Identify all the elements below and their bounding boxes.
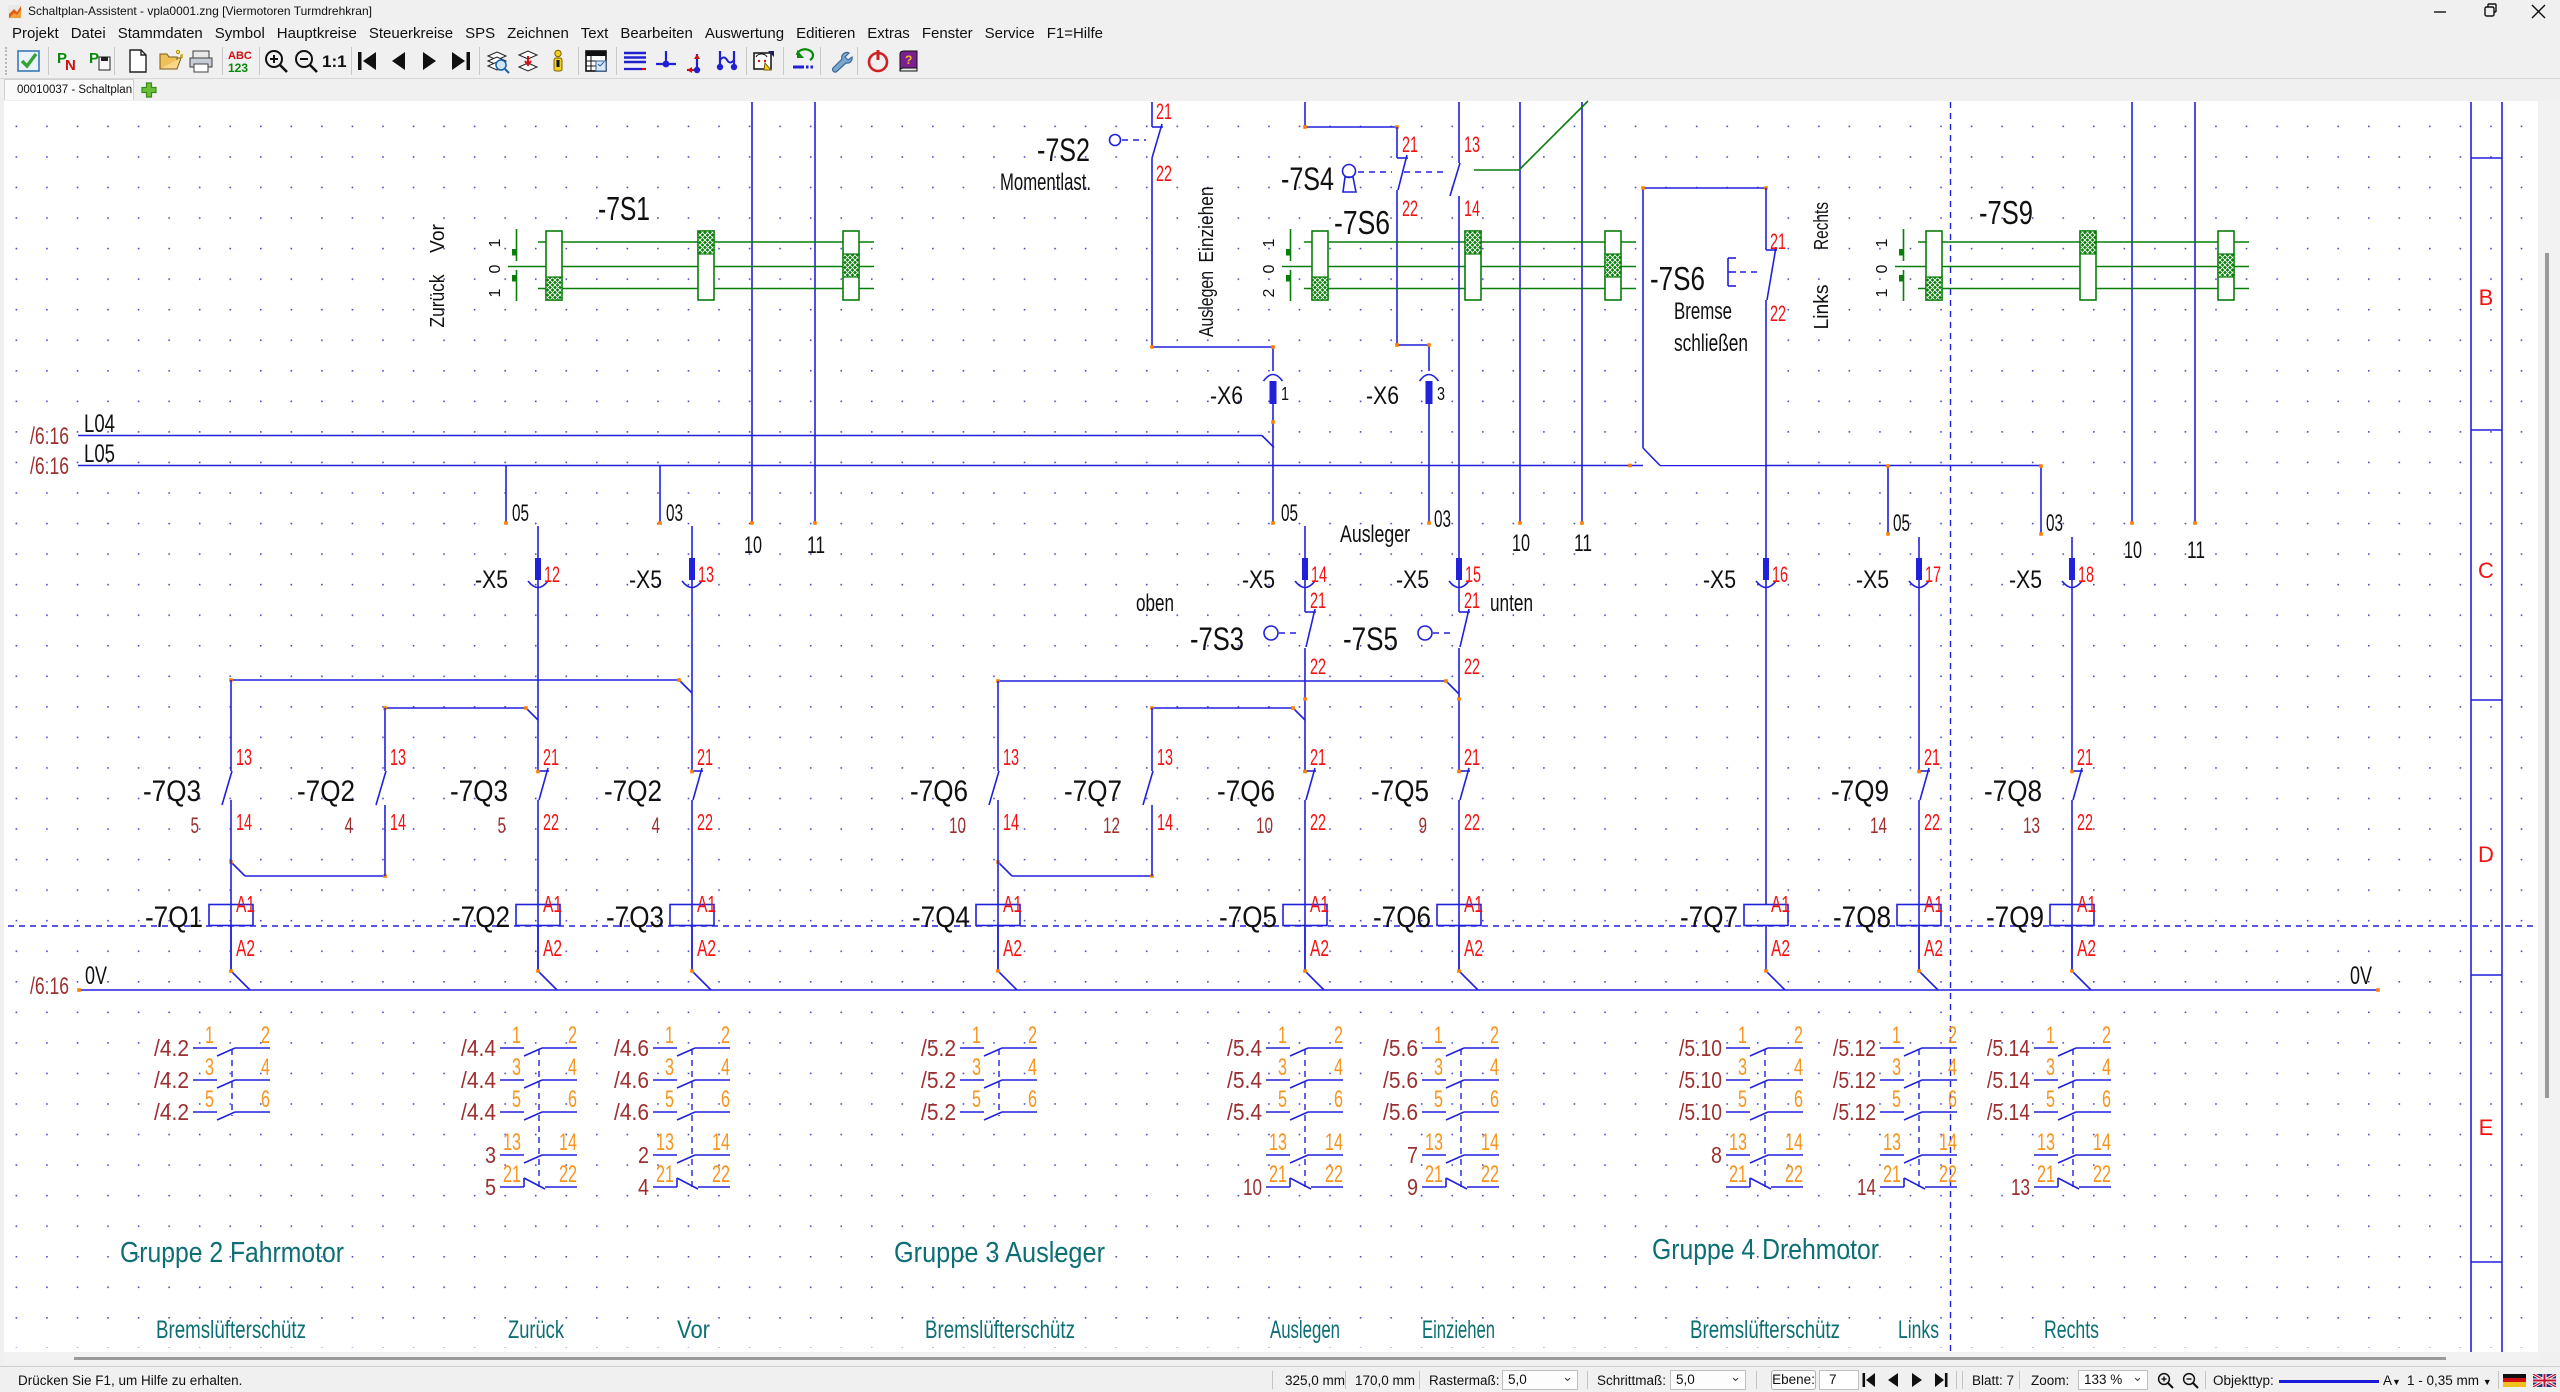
svg-text:A1: A1: [1310, 891, 1329, 917]
svg-text:22: 22: [1156, 161, 1172, 186]
svg-text:10: 10: [1256, 813, 1273, 838]
svg-text:5: 5: [191, 813, 200, 838]
switch -7S5 (NC limit): [1418, 626, 1432, 640]
svg-text:2: 2: [1794, 1022, 1803, 1049]
svg-text:oben: oben: [1136, 590, 1174, 617]
svg-text:/4.2: /4.2: [154, 1099, 189, 1125]
svg-text:/4.2: /4.2: [154, 1067, 189, 1093]
svg-text:2: 2: [568, 1022, 577, 1049]
master switch -7S9 plunger 2: [2080, 231, 2096, 300]
svg-text:Links: Links: [1898, 1316, 1939, 1344]
status raster field: [1429, 1373, 1500, 1388]
terminal -X5:18: [2069, 558, 2075, 580]
svg-text:-7Q7: -7Q7: [1064, 775, 1122, 808]
svg-text:-7Q7: -7Q7: [1680, 901, 1738, 934]
svg-text:Vor: Vor: [427, 224, 449, 253]
nav first: [1862, 1373, 1876, 1387]
toolbar icon print: [188, 48, 214, 74]
wire -7S4 pole2 vertical from top: [1458, 102, 1460, 163]
svg-text:-X5: -X5: [1242, 566, 1275, 594]
wire vertical column x=998: [997, 681, 999, 771]
toolbar icon sheet overview: [484, 48, 510, 74]
svg-text:6: 6: [2102, 1086, 2111, 1113]
svg-text:/4.6: /4.6: [614, 1099, 649, 1125]
svg-text:2: 2: [721, 1022, 730, 1049]
master switch -7S6 contact lines: [1304, 241, 1636, 243]
svg-text:14: 14: [236, 809, 252, 835]
svg-text:05: 05: [512, 500, 529, 527]
svg-text:21: 21: [1729, 1161, 1747, 1188]
svg-text:-X6: -X6: [1210, 382, 1243, 410]
svg-text:11: 11: [2187, 537, 2205, 564]
svg-text:Gruppe 2 Fahrmotor: Gruppe 2 Fahrmotor: [120, 1237, 344, 1269]
contactor coil -7Q5: [1283, 905, 1327, 926]
svg-text:A1: A1: [543, 891, 562, 917]
svg-text:14: 14: [1870, 813, 1887, 838]
svg-text:L04: L04: [84, 410, 115, 438]
wire vertical column x=231: [230, 680, 232, 771]
svg-text:13: 13: [1464, 132, 1480, 157]
german flag: [2503, 1374, 2526, 1387]
svg-text:/5.2: /5.2: [921, 1067, 956, 1093]
svg-text:21: 21: [1464, 744, 1480, 770]
vertical scrollbar: [2539, 101, 2560, 1352]
wire -7Q7 coil to 0V: [1765, 926, 1767, 972]
wire vertical column x=1766: [1765, 188, 1767, 250]
wire L04 bus: [78, 435, 1262, 437]
title bar: [0, 0, 2560, 23]
svg-text:21: 21: [1883, 1161, 1901, 1188]
wire 05 stub (right): [1887, 466, 1889, 535]
wire vertical column x=538: [537, 526, 539, 771]
wire -7S2 top vertical: [1151, 102, 1153, 127]
svg-text:1: 1: [972, 1022, 981, 1049]
svg-text:/5.10: /5.10: [1679, 1035, 1722, 1061]
wire 03 stub (right): [2040, 466, 2042, 535]
wire bottom link group2: [231, 862, 245, 876]
svg-text:22: 22: [559, 1161, 577, 1188]
wire vertical column x=385: [384, 708, 386, 771]
svg-text:13: 13: [1157, 744, 1173, 770]
nav prev: [1887, 1373, 1899, 1387]
switch -7S6 (NC) in box: [1766, 249, 1777, 251]
svg-text:0V: 0V: [2350, 962, 2372, 990]
svg-text:/5.4: /5.4: [1227, 1035, 1262, 1061]
svg-text:-7S4: -7S4: [1281, 161, 1334, 197]
svg-text:5: 5: [665, 1086, 674, 1113]
svg-text:1: 1: [2046, 1022, 2055, 1049]
svg-text:1: 1: [665, 1022, 674, 1049]
svg-text:-7S1: -7S1: [598, 190, 650, 227]
wire 10 vertical from top: [2131, 102, 2133, 523]
svg-text:6: 6: [1334, 1086, 1343, 1113]
svg-text:0: 0: [1261, 264, 1278, 273]
toolbar icon parts table: [583, 48, 609, 74]
svg-text:/4.4: /4.4: [461, 1035, 496, 1061]
svg-text:13: 13: [1729, 1129, 1747, 1156]
svg-text:1: 1: [512, 1022, 521, 1049]
svg-text:/4.2: /4.2: [154, 1035, 189, 1061]
toolbar icon exit power: [865, 48, 891, 74]
status x coordinate: [1285, 1373, 1345, 1388]
wire vertical column x=692: [691, 526, 693, 771]
app icon: [8, 5, 22, 19]
master switch -7S1 contact lines: [538, 241, 874, 243]
svg-text:Auslegen: Auslegen: [1196, 271, 1218, 337]
wire vertical column x=1305: [1304, 526, 1306, 612]
svg-text:05: 05: [1281, 500, 1298, 527]
svg-text:13: 13: [1883, 1129, 1901, 1156]
svg-text:3: 3: [205, 1054, 214, 1081]
svg-text:22: 22: [1464, 654, 1480, 679]
svg-text:3: 3: [972, 1054, 981, 1081]
svg-text:A2: A2: [1310, 935, 1329, 961]
terminal -X5:12: [535, 558, 541, 580]
svg-text:4: 4: [568, 1054, 577, 1081]
svg-text:E: E: [2479, 1115, 2494, 1140]
svg-text:-X5: -X5: [1703, 566, 1736, 594]
svg-text:1: 1: [1434, 1022, 1443, 1049]
master switch -7S9 contact lines: [1918, 241, 2249, 243]
wire -7Q5 coil to 0V: [1304, 926, 1306, 972]
switch -7S3 (NC limit): [1264, 626, 1278, 640]
contact NC -7Q5: [1459, 770, 1470, 772]
wire -X6:1 down to 05: [1272, 404, 1274, 523]
svg-text:D: D: [2478, 842, 2494, 867]
svg-text:7: 7: [1407, 1142, 1418, 1168]
switch -7S2 (NC pushbutton): [1152, 126, 1163, 128]
svg-text:21: 21: [543, 744, 559, 770]
svg-text:/5.6: /5.6: [1383, 1099, 1418, 1125]
wire -7S2 to -X6:1: [1151, 158, 1153, 347]
mechanical link line (green): [1474, 169, 1519, 171]
svg-text:1: 1: [1874, 288, 1891, 297]
svg-text:14: 14: [1464, 196, 1480, 221]
svg-text:-7Q4: -7Q4: [912, 901, 970, 934]
svg-text:22: 22: [1939, 1161, 1957, 1188]
svg-text:-7Q8: -7Q8: [1984, 775, 2042, 808]
contact NC -7Q3: [538, 770, 549, 772]
svg-text:A1: A1: [236, 891, 255, 917]
terminal -X5:14: [1302, 558, 1308, 580]
svg-text:2: 2: [261, 1022, 270, 1049]
page frame column: [2470, 102, 2472, 1352]
svg-text:10: 10: [949, 813, 966, 838]
svg-text:9: 9: [1419, 813, 1428, 838]
wire L05 bus: [78, 465, 1643, 467]
contactor coil -7Q4: [976, 905, 1020, 926]
svg-text:/5.14: /5.14: [1987, 1035, 2030, 1061]
wire -7Q8 coil to 0V: [1918, 926, 1920, 972]
contactor coil -7Q6: [1437, 905, 1481, 926]
svg-text:0V: 0V: [85, 962, 107, 990]
svg-text:-7Q3: -7Q3: [606, 901, 664, 934]
svg-text:Zurück: Zurück: [508, 1316, 564, 1344]
svg-text:Einziehen: Einziehen: [1422, 1316, 1495, 1344]
terminal -X5:17: [1916, 558, 1922, 580]
wire 11 vertical from top: [814, 102, 816, 523]
svg-text:21: 21: [2037, 1161, 2055, 1188]
wire self-hold group3 upper: [998, 680, 1446, 682]
svg-text:Zurück: Zurück: [427, 274, 449, 328]
svg-text:/6.16: /6.16: [30, 453, 69, 480]
svg-text:1: 1: [1281, 384, 1289, 404]
status hint text: [18, 1373, 242, 1388]
svg-text:3: 3: [1892, 1054, 1901, 1081]
wire 11 vertical from top: [1581, 102, 1583, 523]
svg-text:C: C: [2478, 558, 2494, 583]
svg-text:5: 5: [1278, 1086, 1287, 1113]
svg-text:-7Q5: -7Q5: [1219, 901, 1277, 934]
toolbar icon previous sheet: [386, 48, 412, 74]
toolbar icon sheet info: [545, 48, 571, 74]
svg-text:Bremslüfterschütz: Bremslüfterschütz: [925, 1316, 1075, 1344]
window maximize: [2483, 0, 2499, 23]
svg-text:-X5: -X5: [1856, 566, 1889, 594]
terminal -X6:1: [1264, 375, 1283, 382]
svg-text:0: 0: [1874, 264, 1891, 273]
svg-text:Ausleger: Ausleger: [1340, 521, 1410, 548]
svg-text:1: 1: [1261, 238, 1278, 247]
toolbar: [0, 43, 2560, 79]
svg-text:4: 4: [638, 1174, 649, 1200]
svg-text:/5.14: /5.14: [1987, 1099, 2030, 1125]
wire to -7S4 pole1: [1396, 127, 1398, 158]
svg-text:8: 8: [1711, 1142, 1722, 1168]
contactor coil -7Q8: [1897, 905, 1941, 926]
svg-text:14: 14: [1003, 809, 1019, 835]
svg-text:22: 22: [1402, 196, 1418, 221]
toolbar icon new document: [125, 48, 151, 74]
svg-text:-7Q8: -7Q8: [1833, 901, 1891, 934]
svg-text:A2: A2: [697, 935, 716, 961]
toolbar icon PN icon: [56, 48, 82, 74]
wire -7Q2 coil to 0V: [537, 926, 539, 972]
svg-text:A1: A1: [1003, 891, 1022, 917]
svg-text:3: 3: [1434, 1054, 1443, 1081]
svg-text:13: 13: [2023, 813, 2040, 838]
svg-text:2: 2: [1028, 1022, 1037, 1049]
svg-text:22: 22: [712, 1161, 730, 1188]
emergency-release symbol E: [1727, 258, 1729, 286]
svg-text:2: 2: [638, 1142, 649, 1168]
svg-text:3: 3: [665, 1054, 674, 1081]
svg-text:/4.6: /4.6: [614, 1035, 649, 1061]
wire -7Q6 coil to 0V: [1458, 926, 1460, 972]
master switch -7S1 plunger 3: [843, 231, 859, 300]
svg-text:Auslegen: Auslegen: [1270, 1316, 1340, 1344]
uk flag: [2533, 1374, 2556, 1387]
svg-text:-7Q9: -7Q9: [1986, 901, 2044, 934]
zoom in icon: [2157, 1372, 2175, 1390]
terminal -X6:3: [1420, 375, 1439, 382]
svg-text:/5.12: /5.12: [1833, 1099, 1876, 1125]
status blatt: [1972, 1373, 2014, 1388]
selection crosshair horizontal dashed line: [8, 925, 2538, 927]
wire vertical column x=2072: [2071, 537, 2073, 771]
svg-text:22: 22: [697, 809, 713, 835]
wire vertical column x=1152: [1151, 708, 1153, 771]
svg-text:14: 14: [1857, 1174, 1876, 1200]
terminal -X5:13: [689, 558, 695, 580]
svg-text:1: 1: [1738, 1022, 1747, 1049]
wire self-hold group2 upper: [231, 679, 679, 681]
svg-text:3: 3: [2046, 1054, 2055, 1081]
svg-text:13: 13: [2037, 1129, 2055, 1156]
svg-text:22: 22: [1464, 809, 1480, 835]
svg-text:18: 18: [2078, 562, 2094, 587]
master switch -7S6 plunger 3: [1605, 231, 1621, 300]
svg-text:Links: Links: [1811, 285, 1833, 330]
svg-text:L05: L05: [84, 440, 115, 468]
terminal -X5:16: [1763, 558, 1769, 580]
svg-text:/4.6: /4.6: [614, 1067, 649, 1093]
svg-text:Momentlast.: Momentlast.: [1000, 169, 1091, 196]
svg-text:21: 21: [656, 1161, 674, 1188]
svg-text:5: 5: [485, 1174, 496, 1200]
contact NO -7Q6: [989, 771, 999, 805]
svg-text:Gruppe 4 Drehmotor: Gruppe 4 Drehmotor: [1652, 1234, 1879, 1266]
svg-text:21: 21: [1464, 588, 1480, 613]
toolbar icon zoom out: [293, 48, 319, 74]
svg-text:22: 22: [1481, 1161, 1499, 1188]
contact NC -7Q9: [1919, 770, 1930, 772]
svg-text:A2: A2: [2077, 935, 2096, 961]
wire -7S4 feed horizontal: [1305, 126, 1397, 128]
wire L04 to -X6:1 chamfer: [1262, 436, 1274, 448]
nav last: [1934, 1373, 1948, 1387]
svg-text:/4.4: /4.4: [461, 1099, 496, 1125]
svg-text:6: 6: [568, 1086, 577, 1113]
svg-text:21: 21: [1770, 229, 1786, 254]
svg-text:/5.10: /5.10: [1679, 1067, 1722, 1093]
svg-text:6: 6: [1794, 1086, 1803, 1113]
svg-text:2: 2: [1490, 1022, 1499, 1049]
svg-text:22: 22: [2093, 1161, 2111, 1188]
svg-text:05: 05: [1893, 510, 1910, 537]
master switch -7S1 plunger 1: [546, 231, 562, 300]
contact NO -7Q2: [376, 771, 386, 805]
svg-text:-7Q3: -7Q3: [143, 775, 201, 808]
wire 05 stub from L05: [505, 466, 507, 524]
toolbar icon goto sheet: [515, 48, 541, 74]
svg-text:-7S6: -7S6: [1334, 204, 1390, 241]
new sheet plus button: [141, 82, 157, 98]
white box of -7S6 brake switch: [1644, 189, 1765, 465]
selection crosshair vertical dashed line: [1950, 102, 1952, 1352]
svg-text:-7S6: -7S6: [1650, 260, 1705, 297]
svg-text:22: 22: [1785, 1161, 1803, 1188]
svg-text:2: 2: [1261, 288, 1278, 297]
svg-text:03: 03: [1434, 506, 1451, 533]
svg-text:13: 13: [236, 744, 252, 770]
svg-text:10: 10: [1243, 1174, 1262, 1200]
svg-text:1: 1: [487, 288, 504, 297]
svg-text:4: 4: [2102, 1054, 2111, 1081]
svg-text:6: 6: [261, 1086, 270, 1113]
status objekttyp: [2213, 1373, 2274, 1388]
svg-text:Rechts: Rechts: [2044, 1316, 2099, 1344]
contact NC -7Q6: [1305, 770, 1316, 772]
svg-text:-7S9: -7S9: [1979, 194, 2033, 231]
svg-text:21: 21: [2077, 744, 2093, 770]
svg-text:22: 22: [1310, 654, 1326, 679]
svg-text:4: 4: [261, 1054, 270, 1081]
svg-text:1: 1: [1874, 238, 1891, 247]
wire 0V bus: [78, 989, 2379, 991]
master switch -7S1 plunger 2: [698, 231, 714, 300]
menu bar: [6, 23, 2560, 43]
svg-text:13: 13: [503, 1129, 521, 1156]
master switch -7S9 plunger 1: [1926, 231, 1942, 300]
wire -7Q1 coil to 0V: [230, 926, 232, 972]
svg-text:5: 5: [2046, 1086, 2055, 1113]
svg-text:14: 14: [2093, 1129, 2111, 1156]
svg-text:5: 5: [512, 1086, 521, 1113]
svg-text:12: 12: [544, 562, 560, 587]
toolbar icon symbol dialog: [751, 48, 777, 74]
wire -7S4 pole1 to -X6:3: [1396, 190, 1398, 345]
wire -7Q3 coil to 0V: [691, 926, 693, 972]
wire 10 vertical from top: [751, 102, 753, 523]
svg-text:Bremslüfterschütz: Bremslüfterschütz: [156, 1316, 306, 1344]
wire -7Q9 coil to 0V: [2071, 926, 2073, 972]
wire bottom link group3: [998, 862, 1012, 876]
svg-text:-7Q6: -7Q6: [1217, 775, 1275, 808]
svg-text:21: 21: [697, 744, 713, 770]
svg-text:22: 22: [2077, 809, 2093, 835]
svg-text:0: 0: [487, 264, 504, 273]
wire -7S4 feed vertical: [1304, 102, 1306, 127]
contactor coil -7Q1: [209, 905, 253, 926]
wire 11 vertical from top: [2194, 102, 2196, 523]
svg-text:-X5: -X5: [2009, 566, 2042, 594]
svg-text:/6.16: /6.16: [30, 423, 69, 450]
svg-text:A2: A2: [1924, 935, 1943, 961]
toolbar icon junction tool: [653, 48, 679, 74]
wire -X6:3 down to 03: [1428, 404, 1430, 523]
svg-text:22: 22: [1770, 301, 1786, 326]
svg-text:-7Q9: -7Q9: [1831, 775, 1889, 808]
svg-text:13: 13: [656, 1129, 674, 1156]
svg-text:/5.4: /5.4: [1227, 1099, 1262, 1125]
svg-text:13: 13: [1425, 1129, 1443, 1156]
master switch -7S1 detent bar: [516, 229, 518, 261]
svg-text:-7S2: -7S2: [1037, 132, 1090, 168]
svg-text:4: 4: [1948, 1054, 1957, 1081]
svg-text:14: 14: [1785, 1129, 1803, 1156]
svg-text:21: 21: [1310, 588, 1326, 613]
window minimize: [2432, 0, 2448, 23]
svg-text:21: 21: [1425, 1161, 1443, 1188]
svg-text:A2: A2: [1003, 935, 1022, 961]
svg-text:14: 14: [1939, 1129, 1957, 1156]
svg-text:3: 3: [1437, 384, 1445, 404]
wire 10 vertical from top: [1519, 102, 1521, 523]
svg-text:14: 14: [1481, 1129, 1499, 1156]
svg-text:B: B: [2479, 285, 2494, 310]
svg-text:6: 6: [1490, 1086, 1499, 1113]
svg-text:-7Q6: -7Q6: [910, 775, 968, 808]
svg-text:/5.4: /5.4: [1227, 1067, 1262, 1093]
svg-text:4: 4: [1334, 1054, 1343, 1081]
svg-text:21: 21: [1156, 99, 1172, 124]
svg-text:10: 10: [744, 532, 762, 559]
toolbar icon wire bridge tool: [714, 48, 740, 74]
svg-text:Bremslüfterschütz: Bremslüfterschütz: [1690, 1316, 1840, 1344]
svg-text:4: 4: [1028, 1054, 1037, 1081]
svg-text:-7Q2: -7Q2: [297, 775, 355, 808]
